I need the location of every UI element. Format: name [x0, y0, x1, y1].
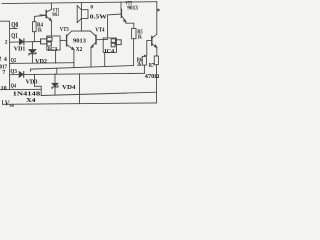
svg-text:Q4: Q4: [11, 82, 17, 89]
svg-text:9013: 9013: [73, 37, 87, 44]
svg-text:7: 7: [2, 70, 5, 76]
svg-text:R7: R7: [149, 63, 155, 69]
wire Q2 line: [10, 62, 74, 65]
wire Q4 pin: [10, 88, 42, 90]
IC U4 music chip box: [103, 38, 121, 67]
wire collector rail speaker: [72, 30, 91, 32]
svg-text:9013: 9013: [127, 6, 138, 12]
IC U3 music chip box: [41, 36, 61, 63]
transistor VT6: [144, 2, 156, 57]
svg-text:SS: SS: [9, 103, 14, 108]
wire top supply rail: [2, 2, 157, 4]
resistor R4: [33, 15, 47, 41]
svg-text:X2: X2: [76, 46, 83, 53]
svg-text:VT3: VT3: [60, 27, 69, 33]
wire bottom rail E: [3, 100, 157, 104]
svg-text:2: 2: [0, 57, 1, 63]
svg-text:9013: 9013: [52, 12, 59, 18]
wire vertical x79: [79, 74, 81, 104]
svg-text:IC4: IC4: [104, 48, 115, 55]
diode VD4 zener: [52, 74, 58, 95]
svg-text:Q1: Q1: [11, 32, 18, 40]
diode VD2 zener: [29, 42, 36, 64]
wire mid ground rail A: [31, 66, 134, 70]
svg-text:Q0: Q0: [11, 21, 18, 29]
svg-text:8: 8: [90, 5, 93, 11]
wire jog rail A left end: [30, 69, 32, 71]
svg-text:1k: 1k: [137, 62, 142, 68]
svg-text:Q2: Q2: [11, 57, 17, 64]
svg-text:1k: 1k: [137, 34, 142, 40]
svg-text:VD1: VD1: [14, 46, 25, 53]
diode VD1: [19, 39, 24, 45]
wire branch to Q4 column: [35, 74, 42, 95]
svg-text:VD4: VD4: [62, 84, 76, 91]
wire Q3 lower rail: [10, 73, 145, 74]
svg-text:470Ω: 470Ω: [145, 73, 160, 80]
wire rail D: [41, 92, 156, 95]
svg-text:Q3: Q3: [10, 68, 17, 75]
transistor VT4: [91, 31, 108, 67]
svg-text:0.5W: 0.5W: [90, 14, 108, 21]
resistor R6: [142, 56, 146, 73]
transistor VT3: [60, 31, 74, 68]
svg-text:10: 10: [1, 86, 7, 92]
resistor R7: [154, 56, 158, 103]
wire jog rail A to lower rail: [56, 68, 58, 73]
IC U2 4017 box right edge: [0, 21, 10, 89]
svg-text:4: 4: [4, 57, 7, 63]
node Q0 stub: [11, 28, 18, 30]
svg-text:VD2: VD2: [35, 58, 47, 65]
node blob top right: [157, 9, 160, 12]
speaker B: [77, 3, 88, 32]
transistor VT5: [108, 2, 134, 38]
svg-text:VT4: VT4: [95, 28, 104, 34]
resistor R5: [132, 28, 136, 65]
svg-text:IC3: IC3: [48, 46, 58, 53]
svg-text:1k: 1k: [37, 27, 42, 33]
diode VD3: [19, 72, 24, 78]
svg-text:VD3: VD3: [26, 79, 39, 86]
transistor VT2: [40, 3, 51, 36]
wire Q1 to node line: [10, 41, 41, 44]
svg-text:2: 2: [5, 40, 8, 46]
svg-text:X4: X4: [26, 97, 36, 104]
